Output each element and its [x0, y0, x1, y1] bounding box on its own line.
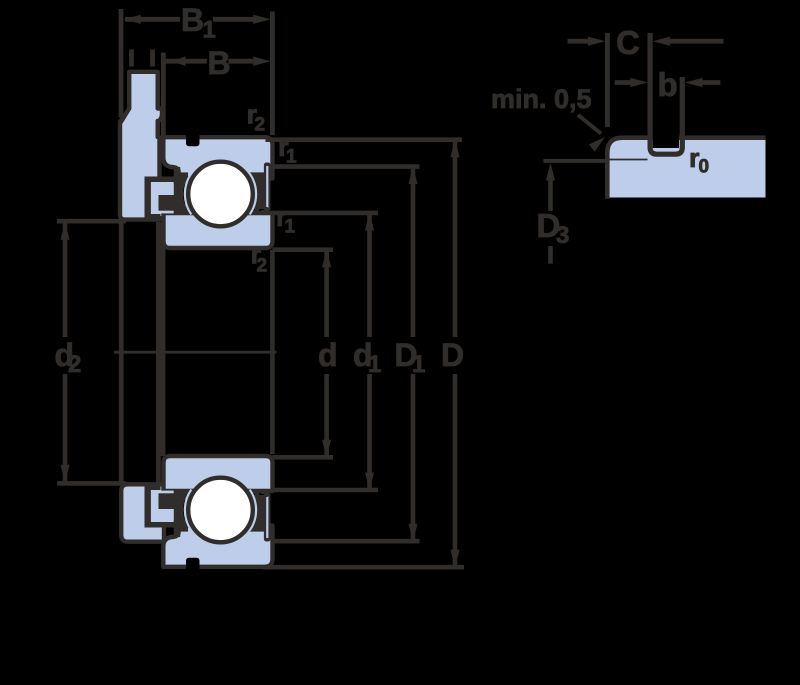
tick mark 1: [129, 50, 134, 67]
dimension B1: [123, 15, 270, 24]
dimension D1: [408, 167, 417, 542]
extension line D1 bottom: [272, 539, 419, 544]
housing bore line: [119, 222, 124, 484]
dimension d2: [57, 221, 126, 483]
snap ring groove in outer ring: [186, 130, 200, 146]
label D1: [395, 337, 426, 378]
label r1 upper: [278, 132, 297, 168]
svg-text:B: B: [181, 2, 204, 38]
shield: [262, 163, 270, 212]
svg-text:B: B: [208, 45, 231, 81]
dimension d1: [365, 213, 374, 490]
dimension D3: [546, 163, 555, 264]
extension line B left: [161, 53, 166, 141]
label d2: [55, 337, 82, 378]
label B1: [181, 2, 216, 44]
seal lips: [145, 177, 181, 220]
raceway gap crescents: [185, 174, 255, 214]
svg-text:D: D: [441, 337, 464, 373]
label D3: [537, 207, 570, 249]
svg-text:b: b: [658, 66, 678, 103]
extension line d top: [272, 247, 333, 252]
leader min. 0,5: [578, 115, 608, 152]
D3 reference lines: [543, 160, 647, 161]
cage left: [174, 167, 189, 214]
extension line d1 top: [272, 211, 378, 216]
extension line d bottom: [272, 455, 333, 460]
label r0: [689, 143, 709, 178]
bearing cross-section upper half: [145, 130, 273, 248]
dimension b: [615, 78, 721, 87]
detail snap ring groove: [650, 30, 682, 154]
ball: [188, 162, 253, 227]
svg-text:1: 1: [368, 351, 381, 378]
extension line B1 left: [119, 9, 124, 118]
svg-text:2: 2: [255, 115, 266, 136]
extension line D top: [266, 137, 463, 142]
tick mark 2: [150, 50, 155, 67]
bearing cross-section lower half (mirrored): [145, 456, 273, 574]
svg-text:2: 2: [68, 351, 81, 378]
dimension D: [450, 140, 459, 567]
label r2 upper: [247, 100, 266, 136]
inner ring: [164, 213, 273, 248]
svg-text:3: 3: [556, 222, 569, 249]
extension line D1 top: [272, 164, 419, 169]
detail view ring segment: [607, 138, 765, 199]
dimension C: [568, 37, 724, 46]
flinger flange (lower section): [121, 484, 164, 541]
extension line d1 bottom: [272, 488, 378, 493]
svg-text:1: 1: [412, 351, 425, 378]
label r2 lower: [251, 240, 268, 277]
sleeve lines: [156, 222, 165, 484]
raceway shoulder arcs: [181, 175, 260, 212]
dimension B: [163, 56, 270, 66]
centerline: [114, 351, 277, 354]
extension line B1/B right: [270, 12, 275, 136]
cage right: [254, 176, 265, 210]
svg-text:1: 1: [285, 217, 296, 238]
dimension d: [322, 250, 331, 458]
label r1 lower: [276, 202, 296, 238]
svg-text:0: 0: [699, 157, 710, 178]
label d1: [353, 337, 381, 378]
inner ring face line: [270, 250, 275, 454]
svg-text:2: 2: [257, 256, 268, 277]
flinger flange (upper section, with neck measured by B1): [117, 72, 162, 220]
svg-text:d: d: [318, 337, 338, 373]
outer ring: [163, 137, 272, 178]
seal pocket fill: [146, 178, 181, 216]
extension line D bottom: [263, 565, 464, 570]
svg-text:1: 1: [203, 17, 216, 44]
svg-text:C: C: [616, 24, 640, 61]
extension line C left: [605, 33, 610, 127]
svg-text:min. 0,5: min. 0,5: [491, 84, 592, 114]
